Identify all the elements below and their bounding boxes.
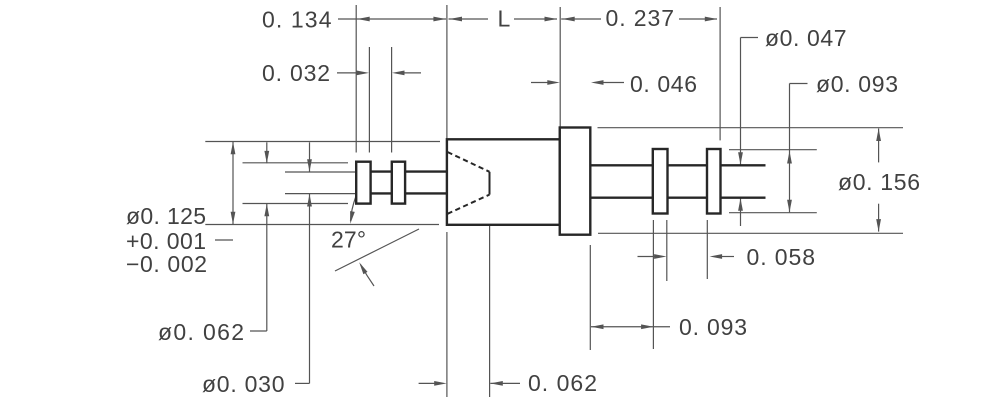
svg-text:ø: ø [765, 25, 779, 51]
svg-text:.: . [866, 169, 872, 195]
svg-text:0: 0 [657, 71, 670, 97]
svg-text:3: 3 [734, 314, 747, 340]
svg-text:7: 7 [661, 5, 674, 31]
svg-text:2: 2 [194, 251, 207, 277]
svg-text:0: 0 [807, 25, 820, 51]
svg-text:7: 7 [834, 25, 847, 51]
svg-text:0: 0 [528, 370, 541, 396]
svg-text:5: 5 [894, 169, 907, 195]
svg-text:0: 0 [272, 371, 285, 397]
svg-text:0: 0 [140, 251, 153, 277]
svg-text:0: 0 [630, 71, 643, 97]
svg-text:ø: ø [838, 169, 852, 195]
svg-text:0: 0 [203, 319, 216, 345]
svg-text:0: 0 [557, 370, 570, 396]
svg-text:5: 5 [789, 244, 802, 270]
svg-text:0: 0 [858, 71, 871, 97]
svg-text:3: 3 [648, 5, 661, 31]
svg-text:0: 0 [679, 314, 692, 340]
svg-text:ø: ø [816, 71, 830, 97]
svg-text:ø: ø [158, 319, 172, 345]
svg-text:2: 2 [584, 370, 597, 396]
svg-text:.: . [153, 251, 159, 277]
svg-text:0: 0 [831, 71, 844, 97]
svg-text:.: . [542, 370, 548, 396]
svg-text:6: 6 [570, 370, 583, 396]
svg-text:4: 4 [820, 25, 833, 51]
svg-text:.: . [693, 314, 699, 340]
svg-text:5: 5 [193, 203, 206, 229]
svg-text:0: 0 [747, 244, 760, 270]
svg-text:3: 3 [305, 7, 318, 33]
svg-text:1: 1 [167, 203, 180, 229]
svg-text:3: 3 [304, 60, 317, 86]
svg-text:0: 0 [262, 60, 275, 86]
svg-text:.: . [643, 71, 649, 97]
svg-text:2: 2 [231, 319, 244, 345]
svg-text:.: . [760, 244, 766, 270]
svg-text:2: 2 [634, 5, 647, 31]
svg-text:0: 0 [245, 371, 258, 397]
svg-text:0: 0 [606, 5, 619, 31]
svg-text:8: 8 [802, 244, 815, 270]
svg-text:.: . [844, 71, 850, 97]
svg-text:2: 2 [317, 60, 330, 86]
svg-text:0: 0 [181, 251, 194, 277]
svg-text:L: L [498, 6, 511, 32]
svg-text:ø: ø [126, 203, 140, 229]
svg-text:0: 0 [167, 251, 180, 277]
svg-text:0: 0 [173, 319, 186, 345]
svg-text:0: 0 [217, 371, 230, 397]
svg-text:0: 0 [140, 203, 153, 229]
svg-text:.: . [276, 60, 282, 86]
svg-text:4: 4 [671, 71, 684, 97]
svg-text:0: 0 [780, 25, 793, 51]
svg-text:1: 1 [880, 169, 893, 195]
svg-text:2: 2 [180, 203, 193, 229]
svg-text:0: 0 [775, 244, 788, 270]
svg-text:ø: ø [202, 371, 216, 397]
svg-text:4: 4 [319, 7, 332, 33]
svg-text:9: 9 [721, 314, 734, 340]
svg-text:6: 6 [217, 319, 230, 345]
svg-text:.: . [230, 371, 236, 397]
svg-text:3: 3 [885, 71, 898, 97]
svg-text:0: 0 [290, 60, 303, 86]
svg-text:.: . [276, 7, 282, 33]
svg-text:°: ° [357, 227, 366, 253]
svg-text:0: 0 [853, 169, 866, 195]
svg-text:3: 3 [258, 371, 271, 397]
svg-text:.: . [188, 319, 194, 345]
svg-text:.: . [154, 203, 160, 229]
svg-text:0: 0 [707, 314, 720, 340]
svg-text:0: 0 [262, 7, 275, 33]
svg-text:6: 6 [684, 71, 697, 97]
svg-text:−: − [126, 251, 139, 277]
svg-text:.: . [619, 5, 625, 31]
svg-text:7: 7 [344, 227, 357, 253]
svg-text:6: 6 [907, 169, 920, 195]
svg-text:9: 9 [872, 71, 885, 97]
svg-text:2: 2 [331, 227, 344, 253]
svg-text:.: . [793, 25, 799, 51]
svg-text:1: 1 [291, 7, 304, 33]
